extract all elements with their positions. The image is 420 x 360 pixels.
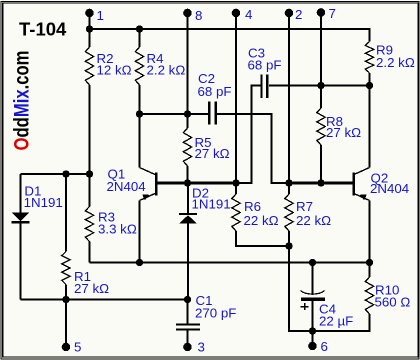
resistor R8: [317, 86, 361, 184]
svg-text:560 Ω: 560 Ω: [375, 295, 411, 310]
svg-text:T-104: T-104: [19, 19, 67, 40]
svg-text:22 µF: 22 µF: [319, 314, 353, 329]
resistor R1: [62, 174, 109, 300]
diode D1: [12, 174, 63, 300]
node R4-C2: [136, 110, 143, 117]
node bus-pin1: [86, 25, 93, 32]
pin 1: [85, 8, 104, 23]
svg-text:2.2 kΩ: 2.2 kΩ: [147, 63, 186, 78]
svg-text:1N191: 1N191: [24, 195, 63, 210]
node Q2base-R7: [285, 179, 292, 186]
resistor R7: [285, 183, 331, 246]
node R1 bottom: [62, 296, 69, 303]
node R9-Q2: [366, 82, 373, 89]
pin 6: [308, 339, 328, 354]
pin 4: [232, 7, 253, 22]
resistor R9: [365, 40, 415, 86]
node rowA-R2: [86, 170, 93, 177]
svg-text:22 kΩ: 22 kΩ: [296, 213, 331, 228]
wire pin6 stub: [312, 331, 314, 346]
wire Q2 base node: [289, 182, 353, 185]
svg-text:68 pF: 68 pF: [248, 58, 282, 73]
svg-text:4: 4: [245, 7, 252, 22]
wire node-A row: [21, 173, 90, 175]
node C4 top: [309, 259, 316, 266]
wire emitter bus: [90, 262, 370, 264]
transistor Q1: [107, 114, 188, 263]
svg-text:1N191: 1N191: [192, 196, 231, 211]
resistor R6: [232, 183, 289, 246]
wire pin4 column: [235, 13, 237, 183]
node R6-R7: [285, 242, 292, 249]
svg-text:6: 6: [321, 339, 328, 354]
resistor R10: [313, 263, 411, 332]
svg-text:2N404: 2N404: [370, 181, 409, 196]
svg-text:1: 1: [97, 8, 104, 23]
svg-text:68 pF: 68 pF: [198, 84, 232, 99]
svg-text:27 kΩ: 27 kΩ: [195, 146, 230, 161]
wire C2 to Q2 base: [217, 114, 289, 183]
capacitor C2: [140, 71, 232, 125]
wire pin5 stub: [65, 300, 67, 348]
svg-text:12 kΩ: 12 kΩ: [97, 63, 132, 78]
resistor R2: [85, 29, 131, 174]
capacitor C1: [176, 293, 236, 347]
node Q1 emitter: [136, 259, 143, 266]
wire Q1 base node: [188, 182, 237, 185]
svg-text:2.2 kΩ: 2.2 kΩ: [376, 55, 415, 70]
pin 7: [317, 6, 336, 21]
svg-text:7: 7: [329, 6, 336, 21]
node Q1base-D2: [184, 179, 191, 186]
resistor R5: [183, 114, 229, 183]
watermark OddMix.com: [11, 51, 34, 151]
wire pin8 column: [187, 13, 189, 114]
pin 2: [285, 7, 303, 22]
svg-text:27 kΩ: 27 kΩ: [74, 281, 109, 296]
wire R7 to C4 bottom: [289, 246, 313, 331]
node C3-pin7: [317, 82, 324, 89]
node bus-R4: [136, 25, 143, 32]
svg-text:OddMix.com: OddMix.com: [11, 51, 34, 151]
svg-text:R6: R6: [244, 199, 261, 214]
svg-text:3.3 kΩ: 3.3 kΩ: [98, 222, 137, 237]
svg-text:8: 8: [195, 8, 202, 23]
wire pin2 column: [288, 13, 290, 183]
wire top bus: [90, 29, 370, 40]
capacitor C4: [301, 263, 354, 332]
pin 5: [62, 340, 82, 355]
transistor Q2: [352, 86, 409, 263]
node rowA-R1: [62, 170, 69, 177]
node Q1base-R6: [232, 179, 239, 186]
node pin8-C2: [184, 110, 191, 117]
svg-text:5: 5: [74, 340, 81, 355]
svg-text:R7: R7: [296, 199, 313, 214]
svg-text:270 pF: 270 pF: [195, 306, 236, 321]
svg-text:3: 3: [198, 340, 205, 355]
capacitor C3: [236, 46, 321, 184]
svg-text:2: 2: [295, 7, 302, 22]
node Q2 emitter: [366, 259, 373, 266]
svg-text:27 kΩ: 27 kΩ: [326, 125, 361, 140]
resistor R3: [85, 174, 137, 263]
node Q2base-R8: [317, 179, 324, 186]
node C1 top: [184, 296, 191, 303]
svg-text:22 kΩ: 22 kΩ: [244, 213, 279, 228]
resistor R4: [135, 29, 185, 114]
pin 3: [183, 340, 205, 355]
svg-text:2N404: 2N404: [107, 179, 146, 194]
wire bottom bus: [21, 299, 188, 301]
wire pin1 stub: [89, 13, 91, 29]
pin 8: [183, 8, 202, 23]
diode D2: [179, 183, 231, 300]
wire R9 bottom: [321, 85, 370, 87]
node C4 bottom: [309, 327, 316, 334]
wire pin7 column: [320, 13, 322, 86]
